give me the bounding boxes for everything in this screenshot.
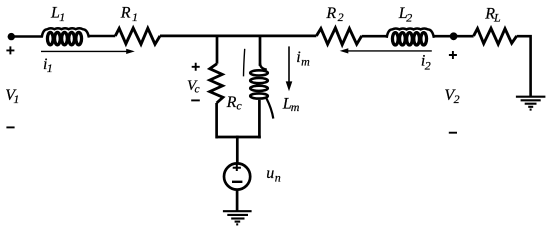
- arrow: current i1: [41, 49, 135, 54]
- svg-text:1: 1: [132, 10, 138, 24]
- wire: L2 to terminal 2 and RL: [434, 35, 474, 38]
- svg-text:m: m: [301, 54, 310, 68]
- label V2: [444, 87, 459, 106]
- label V1: [5, 87, 19, 106]
- ground (right): [516, 97, 546, 110]
- label Vc: [187, 78, 200, 96]
- ground (bottom, under un): [223, 211, 252, 224]
- wire: un to bottom ground: [236, 190, 239, 211]
- label RL: [484, 5, 501, 24]
- label + (Vc): [192, 63, 200, 71]
- resistor R2: [316, 28, 361, 45]
- resistor Rc: [210, 64, 223, 103]
- label L1: [50, 5, 65, 24]
- wire: branch right vertical (to Lm): [259, 35, 262, 66]
- wire: R2 to L2: [362, 35, 387, 38]
- svg-text:m: m: [291, 100, 300, 114]
- label - (Vc): [191, 99, 200, 101]
- label R1: [120, 5, 138, 24]
- resistor R1: [115, 28, 160, 44]
- inductor Lm: [244, 49, 274, 119]
- svg-text:u: u: [266, 165, 274, 182]
- svg-text:1: 1: [59, 10, 65, 24]
- svg-text:L: L: [493, 11, 501, 25]
- svg-text:2: 2: [425, 58, 431, 72]
- wire: RL to right ground corner: [517, 35, 531, 96]
- svg-text:2: 2: [454, 92, 460, 106]
- wire: Rc to bottom bar: [215, 103, 218, 138]
- label + (port 2): [449, 51, 457, 59]
- label - (port 1): [6, 126, 14, 128]
- label im: [296, 49, 310, 69]
- svg-text:R: R: [120, 5, 131, 22]
- label Lm: [282, 96, 300, 114]
- label i2: [421, 53, 431, 73]
- wire: bottom bar to noise source un: [236, 136, 239, 164]
- label Rc: [226, 94, 243, 112]
- label R2: [325, 5, 343, 24]
- svg-text:c: c: [195, 83, 200, 95]
- svg-text:n: n: [275, 171, 281, 185]
- inductor L1: [42, 28, 89, 45]
- svg-text:R: R: [325, 5, 336, 22]
- label + (port 1): [6, 46, 14, 54]
- svg-text:i: i: [296, 49, 300, 66]
- inductor L2: [387, 28, 434, 45]
- arrow: current i2: [340, 48, 432, 53]
- svg-text:2: 2: [338, 10, 344, 24]
- svg-text:c: c: [236, 99, 242, 113]
- node: port-2 terminal dot: [450, 32, 458, 40]
- wire: L1 to R1: [89, 35, 115, 38]
- node: port-1 terminal dot: [8, 33, 15, 40]
- svg-text:1: 1: [47, 61, 53, 75]
- label un: [266, 165, 281, 185]
- svg-text:R: R: [226, 94, 237, 111]
- label i1: [43, 56, 53, 75]
- wire: branch left vertical (to Rc): [216, 35, 219, 64]
- svg-text:2: 2: [406, 11, 412, 25]
- wire: terminal 1 to L1: [11, 35, 42, 38]
- wire: bottom bar of shunt branch: [216, 136, 261, 139]
- svg-text:1: 1: [13, 92, 19, 106]
- label - (port 2): [449, 132, 457, 134]
- wire: Lm to bottom bar: [258, 100, 261, 138]
- label L2: [398, 5, 413, 24]
- voltage source un (noise source): [224, 163, 250, 189]
- resistor RL: [474, 28, 517, 44]
- arrow: current im: [286, 46, 293, 91]
- wire: R1 to center node (top bus): [160, 35, 316, 38]
